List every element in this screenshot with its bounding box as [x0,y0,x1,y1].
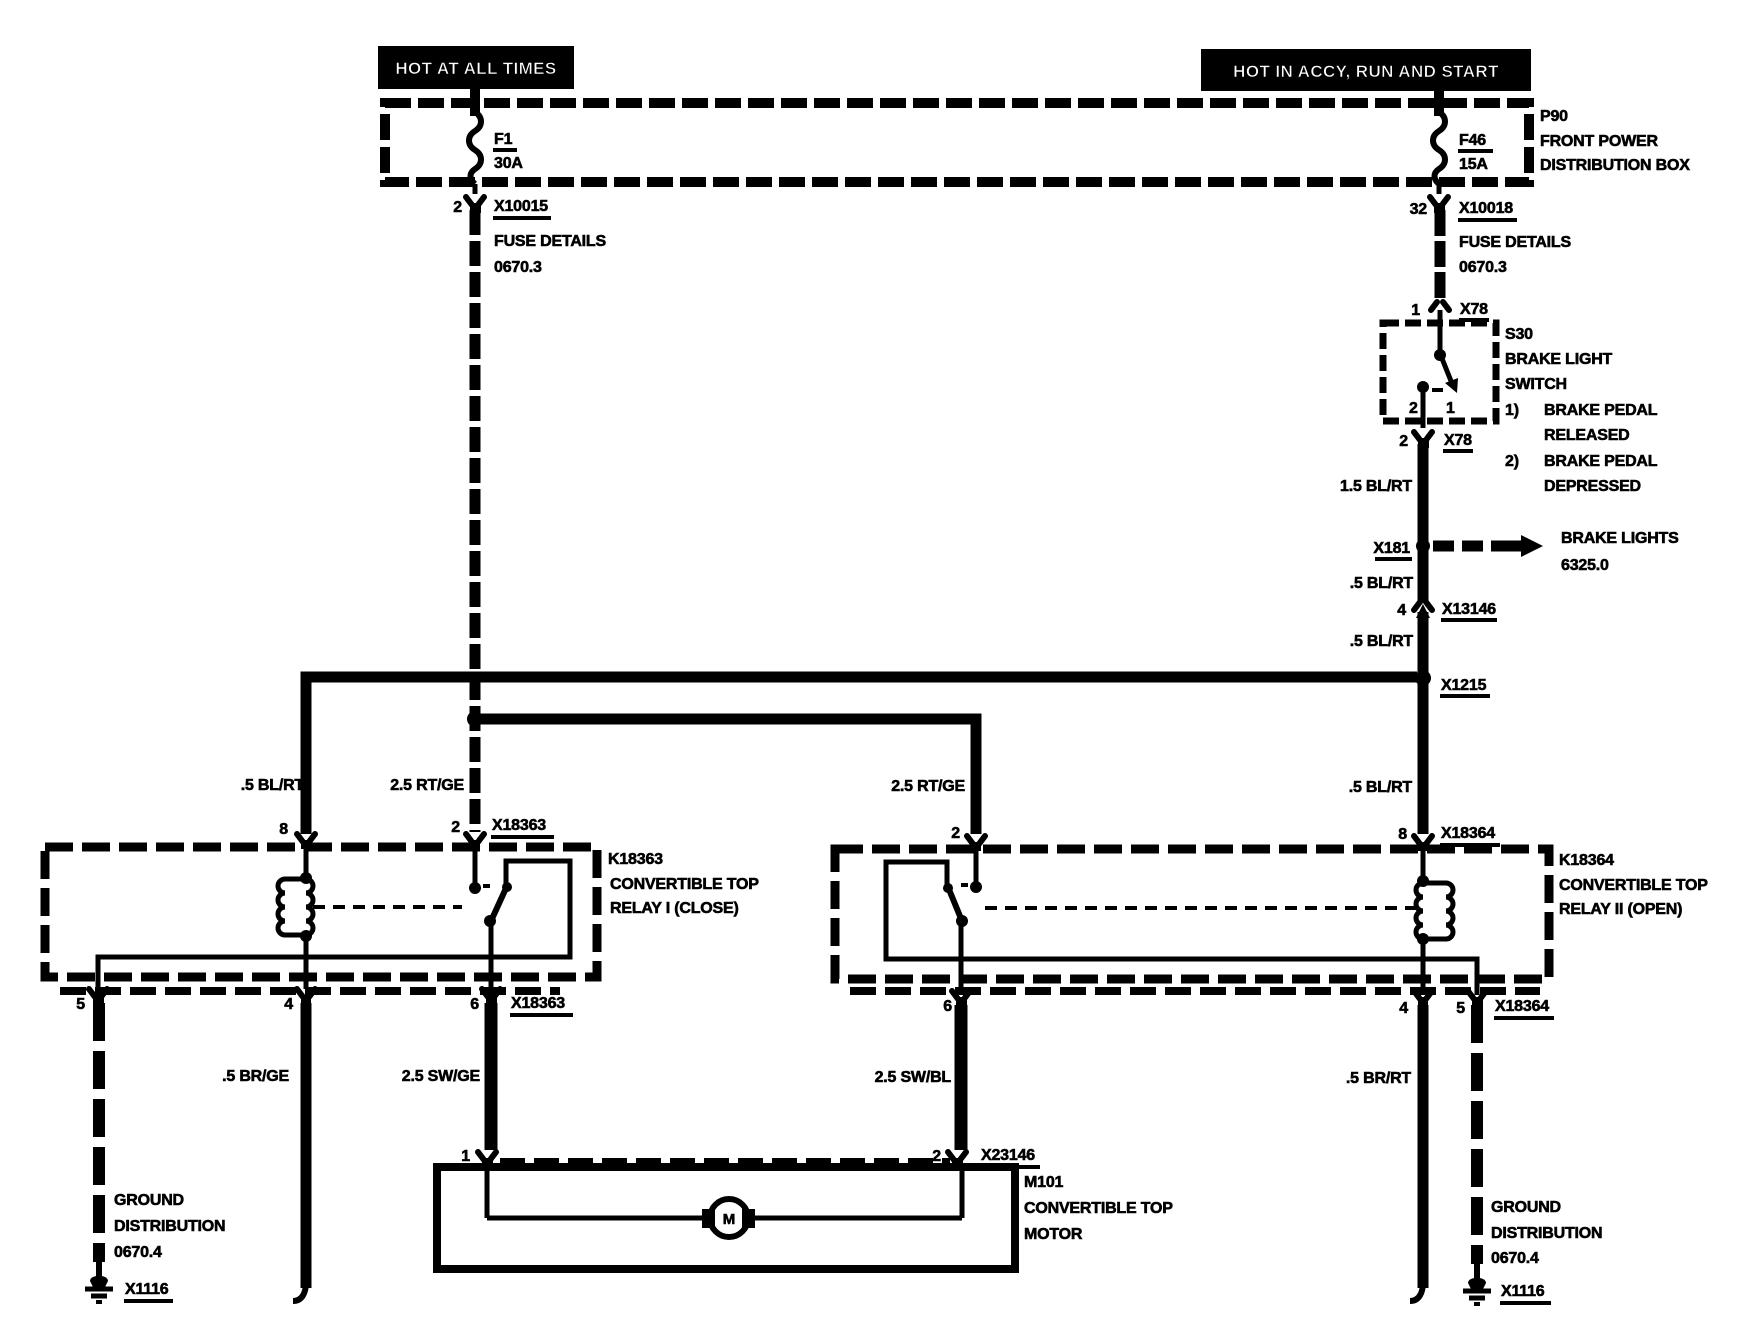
connector X18363 pin 6 [470,989,573,1015]
svg-text:S30: S30 [1505,326,1533,343]
connector X18364 pin 8 [1398,825,1500,851]
connector X18364 pin 2 [951,825,985,851]
svg-text:4: 4 [284,996,293,1013]
ground X1116 left [85,1262,173,1302]
svg-text:X10015: X10015 [494,198,548,215]
svg-text:8: 8 [1398,826,1407,843]
svg-text:2: 2 [453,199,462,216]
wire 2.5 SW/GE from relay I pin 6 to motor pin 1 [485,1003,498,1150]
svg-text:2.5 SW/BL: 2.5 SW/BL [875,1069,952,1086]
svg-text:GROUND: GROUND [114,1192,184,1209]
svg-text:K18364: K18364 [1559,852,1614,869]
connector X18363 pin 4 [284,989,315,1013]
svg-text:6325.0: 6325.0 [1561,557,1609,574]
svg-text:1: 1 [461,1148,470,1165]
connector X10015 pin 2 [453,184,606,276]
wire: relay II pin 5 to ground, dashed [1471,1005,1483,1264]
connector X18363 pin 8 [279,821,315,849]
motor M101 convertible top motor [437,1166,1173,1269]
svg-text:2.5 SW/GE: 2.5 SW/GE [402,1068,481,1085]
svg-text:2: 2 [1409,400,1418,417]
svg-text:X23146: X23146 [981,1147,1035,1164]
svg-text:15A: 15A [1459,156,1488,173]
svg-text:BRAKE PEDAL: BRAKE PEDAL [1544,453,1658,470]
relay coil K18364 [1416,849,1453,995]
svg-text:8: 8 [279,821,288,838]
fuse F46 15A [1433,112,1493,184]
connector X18364 pin 4 [1399,991,1432,1017]
connector X18363 pin 2 [451,817,554,849]
svg-text:RELAY II (OPEN): RELAY II (OPEN) [1559,901,1682,918]
svg-text:GROUND: GROUND [1491,1199,1561,1216]
connector X23146 pin 1 [461,1148,496,1168]
svg-text:FRONT POWER: FRONT POWER [1540,133,1658,150]
svg-text:0670.4: 0670.4 [1491,1250,1539,1267]
svg-text:0670.3: 0670.3 [1459,259,1507,276]
svg-text:RELEASED: RELEASED [1544,427,1630,444]
wire: X1215 horizontal line to relay I pin 8 [306,677,1417,834]
connector X18363 bottom strip [60,987,560,995]
wire .5 BL/RT from X13146 to X1215 [1418,612,1429,684]
svg-text:2: 2 [951,825,960,842]
svg-text:2: 2 [451,819,460,836]
svg-text:30A: 30A [494,155,523,172]
svg-text:BRAKE PEDAL: BRAKE PEDAL [1544,402,1658,419]
wire: branch 2.5 RT/GE to relay II pin 2 [479,719,976,834]
continuation squiggle on .5 BR/GE wire [293,1282,306,1301]
svg-text:X18363: X18363 [492,817,546,834]
svg-text:0670.4: 0670.4 [114,1244,162,1261]
relay switch K18363 [98,847,570,989]
svg-text:X78: X78 [1460,301,1488,318]
ground X1116 right [1463,1264,1551,1304]
connector X18364 pin 6 [943,991,970,1015]
wire: F1 output .5 BL/RT dashed vertical [470,210,481,832]
relay K18364 convertible top relay II (open) box [835,849,1708,979]
connector X23146 strip [500,1158,950,1166]
relay K18364 control dashed line [985,906,1418,910]
svg-text:DISTRIBUTION: DISTRIBUTION [114,1218,225,1235]
svg-text:2: 2 [932,1148,941,1165]
svg-text:5: 5 [76,996,85,1013]
svg-text:SWITCH: SWITCH [1505,376,1567,393]
wire 1.5 BL/RT from X78 to X181 [1418,444,1429,548]
svg-text:4: 4 [1399,1000,1408,1017]
svg-text:2): 2) [1505,453,1519,470]
svg-text:.5 BL/RT: .5 BL/RT [241,777,305,794]
svg-text:X10018: X10018 [1459,200,1513,217]
node X181 [1373,539,1430,559]
svg-text:5: 5 [1456,1000,1465,1017]
svg-text:.5 BR/RT: .5 BR/RT [1346,1070,1411,1087]
wire .5 BR/RT from relay II pin 4 [1418,1005,1429,1288]
svg-text:1): 1) [1505,402,1519,419]
svg-text:HOT IN ACCY, RUN AND START: HOT IN ACCY, RUN AND START [1233,62,1499,81]
arrow: to brake lights 6325.0 [1433,530,1679,574]
connector X78 pin 2 [1399,432,1473,451]
svg-text:2: 2 [1399,433,1408,450]
svg-text:6: 6 [943,998,952,1015]
switch S30 brake light switch [1383,310,1658,495]
wire: feed from HOT AT ALL TIMES into F1 [470,87,480,116]
junction at F1 output [467,711,483,727]
power label: HOT AT ALL TIMES [378,46,574,89]
wire: relay I pin 5 to ground, dashed [93,1003,105,1262]
P90 front power distribution box [385,103,1690,182]
svg-text:FUSE DETAILS: FUSE DETAILS [1459,234,1572,251]
svg-text:HOT AT ALL TIMES: HOT AT ALL TIMES [395,59,556,78]
svg-text:MOTOR: MOTOR [1024,1226,1083,1243]
connector X18363 pin 5 [76,989,107,1013]
svg-text:4: 4 [1397,602,1406,619]
wire: F46 output dashed vertical to X78 [1435,210,1446,300]
svg-text:RELAY I (CLOSE): RELAY I (CLOSE) [610,900,739,917]
svg-text:P90: P90 [1540,108,1568,125]
svg-text:X1215: X1215 [1441,677,1487,694]
svg-text:BRAKE LIGHTS: BRAKE LIGHTS [1561,530,1679,547]
svg-text:M101: M101 [1024,1174,1064,1191]
svg-text:X18364: X18364 [1441,825,1495,842]
fuse F1 30A [469,112,523,184]
ground distribution label left [114,1192,225,1261]
svg-text:X1116: X1116 [125,1281,169,1298]
svg-text:F1: F1 [494,131,513,148]
svg-text:DEPRESSED: DEPRESSED [1544,478,1641,495]
connector X23146 pin 2 [932,1147,1040,1168]
wire .5 BL/RT from X181 to X13146 [1418,548,1429,602]
svg-text:1: 1 [1411,302,1420,319]
svg-text:F46: F46 [1459,132,1486,149]
svg-text:.5 BL/RT: .5 BL/RT [1350,575,1414,592]
relay K18363 control dashed line [313,905,462,909]
svg-text:X181: X181 [1373,540,1410,557]
wire: feed from HOT IN ACCY into F46 [1434,89,1444,116]
svg-text:X1116: X1116 [1501,1283,1545,1300]
svg-text:M: M [723,1211,736,1228]
svg-text:CONVERTIBLE TOP: CONVERTIBLE TOP [610,876,759,893]
svg-text:X18363: X18363 [511,995,565,1012]
svg-text:FUSE DETAILS: FUSE DETAILS [494,233,607,250]
wire .5 BL/RT from X1215 down to relay II pin 8 [1418,678,1429,834]
wire .5 BR/GE from relay I pin 4 [301,1003,312,1288]
svg-text:BRAKE LIGHT: BRAKE LIGHT [1505,351,1613,368]
svg-text:1: 1 [1446,400,1455,417]
svg-text:6: 6 [470,996,479,1013]
connector X10018 pin 32 [1410,184,1572,276]
node X1215 [1415,670,1490,696]
relay K18363 convertible top relay I (close) box [45,847,759,977]
svg-text:.5 BL/RT: .5 BL/RT [1350,633,1414,650]
svg-text:X13146: X13146 [1442,601,1496,618]
svg-text:CONVERTIBLE TOP: CONVERTIBLE TOP [1024,1200,1173,1217]
relay coil K18363 [278,847,313,989]
power label: HOT IN ACCY, RUN AND START [1201,49,1531,91]
connector X18364 pin 5 [1456,991,1554,1018]
svg-text:CONVERTIBLE TOP: CONVERTIBLE TOP [1559,877,1708,894]
wire 2.5 SW/BL from relay II pin 6 to motor pin 2 [955,1005,968,1150]
svg-text:2.5 RT/GE: 2.5 RT/GE [390,777,464,794]
svg-text:.5 BR/GE: .5 BR/GE [222,1068,289,1085]
continuation squiggle on .5 BR/RT wire [1410,1282,1423,1301]
svg-text:0670.3: 0670.3 [494,259,542,276]
connector X78 pin 1 [1411,301,1489,320]
svg-text:DISTRIBUTION BOX: DISTRIBUTION BOX [1540,157,1690,174]
connector X13146 pin 4 [1397,601,1497,620]
svg-text:DISTRIBUTION: DISTRIBUTION [1491,1225,1602,1242]
svg-text:X78: X78 [1444,432,1472,449]
svg-text:32: 32 [1410,201,1428,218]
svg-text:1.5 BL/RT: 1.5 BL/RT [1340,478,1412,495]
connector X18364 bottom strip [850,987,1540,995]
ground distribution label right [1491,1199,1602,1267]
svg-text:.5 BL/RT: .5 BL/RT [1349,779,1413,796]
svg-text:K18363: K18363 [608,851,663,868]
svg-text:X18364: X18364 [1495,998,1549,1015]
relay switch K18364 [886,849,1477,995]
svg-text:2.5 RT/GE: 2.5 RT/GE [891,778,965,795]
